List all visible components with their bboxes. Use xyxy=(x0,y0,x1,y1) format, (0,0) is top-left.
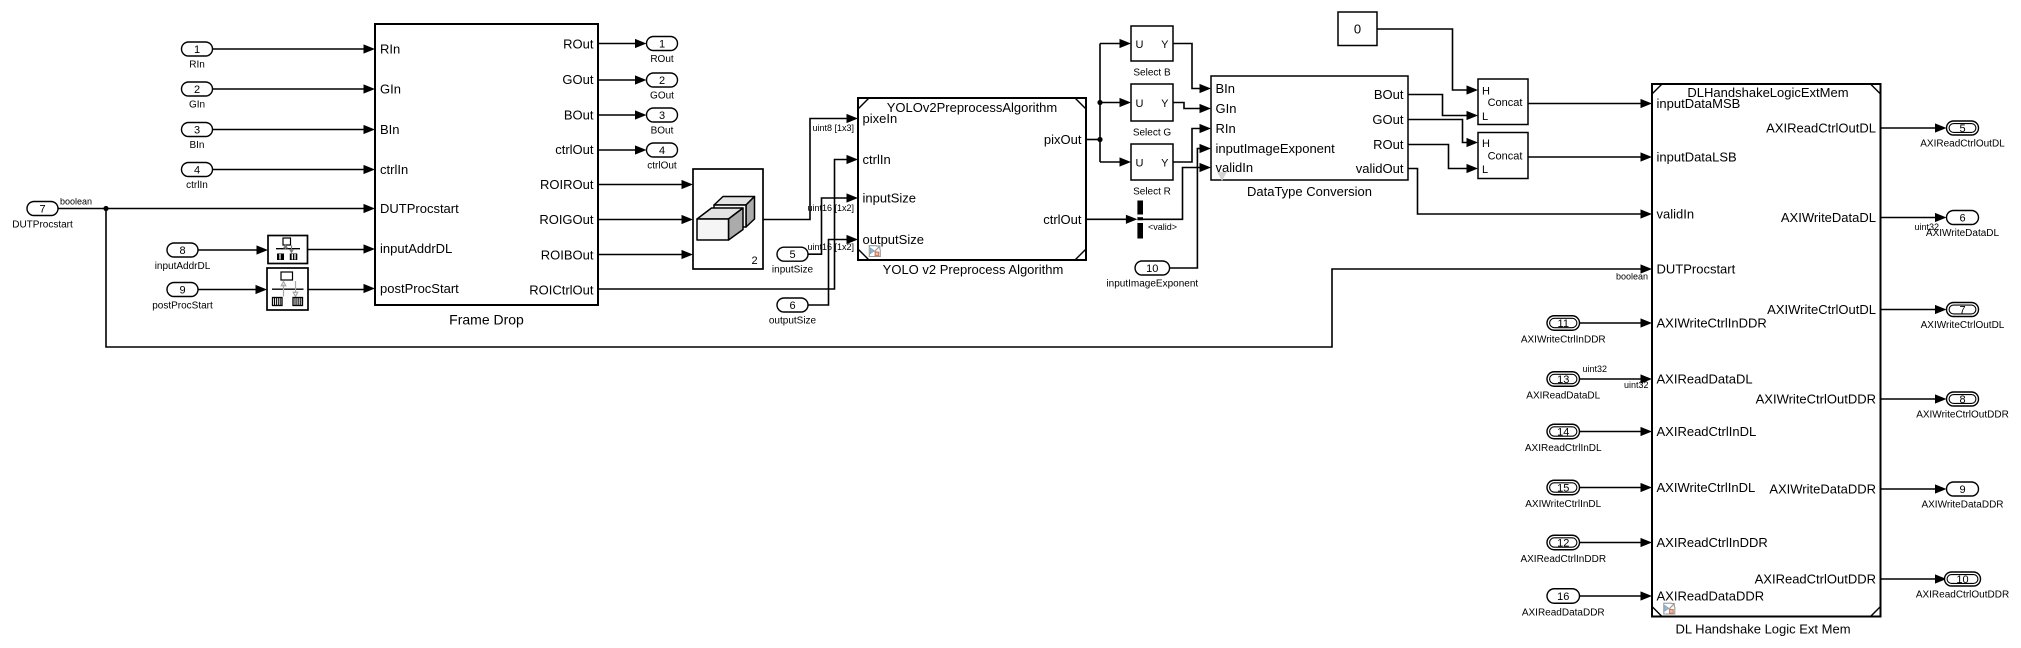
svg-text:AXIWriteCtrlInDDR: AXIWriteCtrlInDDR xyxy=(1521,335,1606,346)
svg-text:ctrlOut: ctrlOut xyxy=(555,142,594,157)
svg-text:AXIWriteCtrlOutDDR: AXIWriteCtrlOutDDR xyxy=(1916,410,2009,421)
svg-text:4: 4 xyxy=(659,145,665,157)
svg-text:L: L xyxy=(1482,164,1488,176)
svg-text:U: U xyxy=(1136,98,1144,110)
svg-text:Frame Drop: Frame Drop xyxy=(449,312,524,328)
svg-text:6: 6 xyxy=(1959,213,1965,225)
svg-text:AXIWriteCtrlOutDDR: AXIWriteCtrlOutDDR xyxy=(1756,392,1876,407)
svg-text:uint16 [1x2]: uint16 [1x2] xyxy=(808,242,855,252)
svg-text:inputSize: inputSize xyxy=(772,265,814,276)
svg-text:Y: Y xyxy=(1161,98,1169,110)
svg-text:9: 9 xyxy=(1959,484,1965,496)
svg-text:YOLOv2PreprocessAlgorithm: YOLOv2PreprocessAlgorithm xyxy=(887,100,1058,115)
svg-text:AXIWriteCtrlInDL: AXIWriteCtrlInDL xyxy=(1525,499,1601,510)
svg-text:uint32: uint32 xyxy=(1624,380,1649,390)
svg-text:inputDataLSB: inputDataLSB xyxy=(1657,150,1737,165)
svg-text:Select R: Select R xyxy=(1133,187,1171,198)
svg-text:Y: Y xyxy=(1161,158,1169,170)
svg-text:BIn: BIn xyxy=(1216,81,1236,96)
svg-text:ROIROut: ROIROut xyxy=(540,177,594,192)
svg-text:1: 1 xyxy=(194,44,200,56)
svg-text:AXIReadCtrlOutDDR: AXIReadCtrlOutDDR xyxy=(1755,572,1876,587)
svg-text:15: 15 xyxy=(1557,483,1569,495)
svg-text:GIn: GIn xyxy=(189,100,205,111)
svg-text:8: 8 xyxy=(1959,394,1965,406)
svg-text:AXIReadCtrlInDL: AXIReadCtrlInDL xyxy=(1525,443,1602,454)
svg-text:GIn: GIn xyxy=(380,82,401,97)
svg-text:inputImageExponent: inputImageExponent xyxy=(1106,279,1198,290)
svg-text:uint32: uint32 xyxy=(1914,222,1939,232)
svg-text:outputSize: outputSize xyxy=(863,232,924,247)
svg-text:inputDataMSB: inputDataMSB xyxy=(1657,96,1741,111)
svg-text:ROut: ROut xyxy=(1373,137,1404,152)
svg-text:AXIReadCtrlOutDDR: AXIReadCtrlOutDDR xyxy=(1916,590,2009,601)
svg-text:10: 10 xyxy=(1146,263,1158,275)
svg-text:DL Handshake Logic Ext Mem: DL Handshake Logic Ext Mem xyxy=(1675,622,1850,637)
svg-text:uint32: uint32 xyxy=(1583,364,1608,374)
svg-text:AXIReadDataDL: AXIReadDataDL xyxy=(1526,391,1600,402)
svg-text:outputSize: outputSize xyxy=(769,316,817,327)
svg-text:ROICtrlOut: ROICtrlOut xyxy=(529,283,594,298)
svg-text:postProcStart: postProcStart xyxy=(380,281,459,296)
svg-text:inputImageExponent: inputImageExponent xyxy=(1216,141,1336,156)
svg-text:boolean: boolean xyxy=(60,197,92,207)
svg-text:6: 6 xyxy=(789,300,795,312)
svg-text:GOut: GOut xyxy=(562,72,593,87)
svg-text:BOut: BOut xyxy=(564,108,594,123)
svg-text:8: 8 xyxy=(179,245,185,257)
svg-text:13: 13 xyxy=(1557,374,1569,386)
svg-text:BIn: BIn xyxy=(189,140,204,151)
svg-text:AXIWriteCtrlOutDL: AXIWriteCtrlOutDL xyxy=(1767,302,1876,317)
svg-text:GIn: GIn xyxy=(1216,101,1237,116)
svg-text:3: 3 xyxy=(659,110,665,122)
svg-text:Concat: Concat xyxy=(1488,97,1523,109)
svg-text:5: 5 xyxy=(789,249,795,261)
svg-text:1: 1 xyxy=(659,39,665,51)
svg-text:AXIReadCtrlInDDR: AXIReadCtrlInDDR xyxy=(1520,554,1606,565)
svg-text:7: 7 xyxy=(1959,305,1965,317)
svg-text:ROut: ROut xyxy=(563,37,594,52)
svg-text:<valid>: <valid> xyxy=(1148,222,1177,232)
svg-text:3: 3 xyxy=(194,125,200,137)
svg-text:boolean: boolean xyxy=(1616,272,1648,282)
svg-text:validIn: validIn xyxy=(1657,207,1695,222)
svg-text:2: 2 xyxy=(751,255,757,267)
svg-text:ctrlOut: ctrlOut xyxy=(647,161,677,172)
svg-text:AXIReadCtrlOutDL: AXIReadCtrlOutDL xyxy=(1920,139,2005,150)
svg-text:ctrlIn: ctrlIn xyxy=(186,180,208,191)
svg-text:AXIReadDataDDR: AXIReadDataDDR xyxy=(1657,589,1765,604)
svg-text:ROut: ROut xyxy=(650,54,674,65)
svg-text:RIn: RIn xyxy=(380,42,400,57)
svg-text:AXIReadCtrlInDDR: AXIReadCtrlInDDR xyxy=(1657,535,1768,550)
svg-text:ctrlOut: ctrlOut xyxy=(1043,212,1082,227)
svg-text:Select B: Select B xyxy=(1133,68,1171,79)
svg-text:AXIWriteCtrlOutDL: AXIWriteCtrlOutDL xyxy=(1921,320,2005,331)
svg-text:RIn: RIn xyxy=(1216,121,1236,136)
svg-text:Select G: Select G xyxy=(1133,128,1172,139)
svg-text:U: U xyxy=(1136,39,1144,51)
svg-text:ROIBOut: ROIBOut xyxy=(541,248,594,263)
svg-text:AXIReadCtrlOutDL: AXIReadCtrlOutDL xyxy=(1766,121,1876,136)
svg-text:ctrlIn: ctrlIn xyxy=(380,162,408,177)
svg-text:5: 5 xyxy=(1959,123,1965,135)
svg-text:12: 12 xyxy=(1557,538,1569,550)
svg-text:BIn: BIn xyxy=(380,122,400,137)
svg-text:DUTProcstart: DUTProcstart xyxy=(380,201,459,216)
svg-text:AXIWriteCtrlInDDR: AXIWriteCtrlInDDR xyxy=(1657,316,1767,331)
svg-text:0: 0 xyxy=(1354,22,1361,37)
svg-text:uint8 [1x3]: uint8 [1x3] xyxy=(813,123,855,133)
svg-text:DUTProcstart: DUTProcstart xyxy=(12,220,73,231)
svg-text:H: H xyxy=(1482,86,1490,98)
svg-text:pixeIn: pixeIn xyxy=(863,111,898,126)
svg-text:AXIWriteDataDDR: AXIWriteDataDDR xyxy=(1921,500,2003,511)
svg-text:AXIReadDataDL: AXIReadDataDL xyxy=(1657,372,1753,387)
svg-text:10: 10 xyxy=(1956,574,1968,586)
svg-text:ROIGOut: ROIGOut xyxy=(539,212,594,227)
svg-text:YOLO v2 Preprocess Algorithm: YOLO v2 Preprocess Algorithm xyxy=(883,262,1064,277)
svg-text:AXIWriteDataDDR: AXIWriteDataDDR xyxy=(1769,482,1876,497)
svg-text:inputAddrDL: inputAddrDL xyxy=(380,241,452,256)
svg-text:GOut: GOut xyxy=(1372,112,1403,127)
svg-text:16: 16 xyxy=(1557,591,1569,603)
svg-text:AXIWriteCtrlInDL: AXIWriteCtrlInDL xyxy=(1657,480,1756,495)
svg-text:2: 2 xyxy=(659,75,665,87)
svg-text:AXIWriteDataDL: AXIWriteDataDL xyxy=(1781,210,1876,225)
svg-text:U: U xyxy=(1136,158,1144,170)
svg-text:7: 7 xyxy=(39,204,45,216)
svg-text:BOut: BOut xyxy=(1374,87,1404,102)
svg-text:AXIReadCtrlInDL: AXIReadCtrlInDL xyxy=(1657,424,1757,439)
svg-text:L: L xyxy=(1482,111,1488,123)
svg-text:AXIReadDataDDR: AXIReadDataDDR xyxy=(1522,608,1605,619)
svg-text:inputAddrDL: inputAddrDL xyxy=(155,261,211,272)
svg-text:DataType Conversion: DataType Conversion xyxy=(1247,184,1372,199)
svg-text:DUTProcstart: DUTProcstart xyxy=(1657,262,1736,277)
svg-text:uint16 [1x2]: uint16 [1x2] xyxy=(808,203,855,213)
svg-text:RIn: RIn xyxy=(189,60,205,71)
svg-text:H: H xyxy=(1482,138,1490,150)
svg-text:Concat: Concat xyxy=(1488,151,1523,163)
svg-text:postProcStart: postProcStart xyxy=(152,301,213,312)
svg-text:GOut: GOut xyxy=(650,91,674,102)
svg-text:inputSize: inputSize xyxy=(863,191,916,206)
svg-text:9: 9 xyxy=(179,285,185,297)
svg-text:BOut: BOut xyxy=(651,126,674,137)
svg-text:2: 2 xyxy=(194,84,200,96)
svg-text:11: 11 xyxy=(1558,318,1569,330)
svg-text:ctrlIn: ctrlIn xyxy=(863,152,891,167)
svg-text:pixOut: pixOut xyxy=(1044,132,1082,147)
svg-text:14: 14 xyxy=(1557,427,1569,439)
svg-text:4: 4 xyxy=(194,165,200,177)
svg-text:validOut: validOut xyxy=(1356,161,1404,176)
svg-text:Y: Y xyxy=(1161,39,1169,51)
